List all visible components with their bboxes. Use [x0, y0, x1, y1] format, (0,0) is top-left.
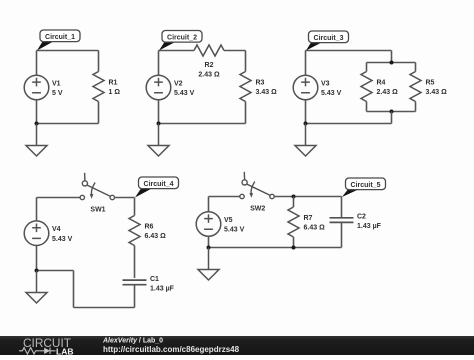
svg-text:SW2: SW2 [250, 205, 265, 212]
resistor R7 6.43 Ω (vertical) [288, 207, 299, 237]
svg-text:2.43 Ω: 2.43 Ω [198, 72, 220, 79]
node R7 top junction (junction) [292, 195, 296, 199]
svg-text:AlexVerity / Lab_0: AlexVerity / Lab_0 [102, 337, 163, 344]
voltage source V3 5.43 V [293, 75, 318, 100]
wire R7 top lead [293, 197, 295, 208]
svg-text:5.43 V: 5.43 V [52, 236, 73, 243]
ground GND circuit 1 [26, 124, 47, 157]
resistor R2 2.43 Ω (horizontal) [194, 45, 224, 56]
voltage source V5 5.43 V [196, 212, 221, 237]
svg-text:1.43 µF: 1.43 µF [357, 223, 382, 230]
svg-text:R7: R7 [304, 215, 313, 222]
resistor R3 3.43 Ω (vertical) [240, 72, 251, 102]
wire bottom path horizontal 1 [37, 270, 74, 272]
node label callout Circuit_5 [342, 178, 386, 197]
wire R4 top lead [366, 63, 368, 72]
ground GND circuit 5 [198, 248, 219, 281]
wire C1 bottom lead [134, 285, 136, 308]
wire V2 top lead [158, 51, 160, 76]
resistor R1 1 Ω (vertical) [93, 72, 104, 102]
wire R7 bottom lead [293, 237, 295, 248]
svg-text:Circuit_2: Circuit_2 [167, 34, 197, 41]
wire R4 bottom lead [366, 102, 368, 112]
wire C4 top-right: SW1 to R6 [115, 197, 135, 199]
wire C3 top: V3+ right [306, 50, 392, 52]
svg-text:LAB: LAB [56, 347, 73, 355]
wire C2 bottom lead [341, 222, 343, 247]
ground GND circuit 3 [295, 124, 316, 157]
wire bottom path vertical [73, 271, 75, 308]
wire C3 bottom wire [306, 123, 392, 125]
svg-text:5.43 V: 5.43 V [174, 90, 195, 97]
wire C5 bottom wire [209, 247, 342, 249]
wire R6 to C1 wire [134, 246, 136, 279]
svg-text:Circuit_3: Circuit_3 [314, 35, 344, 42]
wire V4 bottom lead [36, 246, 38, 271]
svg-text:3.43 Ω: 3.43 Ω [256, 89, 278, 96]
wire V5 bottom lead [208, 236, 210, 247]
wire drop to parallel top bar [391, 51, 393, 63]
wire R1 top lead [98, 51, 100, 72]
wire V1 bottom lead [36, 100, 38, 124]
ground GND circuit 2 [148, 124, 169, 157]
svg-text:R4: R4 [377, 80, 386, 87]
svg-text:Circuit_4: Circuit_4 [144, 181, 174, 188]
node top bar junction (junction) [390, 61, 394, 65]
wire C5 top-right: SW2 to R7/C2 [275, 196, 342, 198]
wire C2 top-right: R2 to R3 [224, 50, 246, 52]
svg-text:6.43 Ω: 6.43 Ω [304, 225, 326, 232]
svg-text:5.43 V: 5.43 V [321, 90, 342, 97]
node label callout Circuit_2 [159, 31, 202, 51]
node label callout Circuit_4 [135, 177, 179, 198]
wire C1 top: V1+ to R1 top [37, 50, 99, 52]
wire R1 bottom lead [98, 102, 100, 124]
wire V1 top lead [36, 51, 38, 76]
wire C5 top-left: V5+ to SW2 [209, 196, 240, 198]
svg-text:V4: V4 [52, 226, 61, 233]
svg-text:6.43 Ω: 6.43 Ω [145, 233, 167, 240]
wire C1 bottom: R1 to V1- [37, 123, 99, 125]
wire V3 top lead [305, 51, 307, 76]
node V1- / ground junction (junction) [35, 122, 39, 126]
wire C2 bottom: R3 to V2- [159, 123, 246, 125]
voltage source V1 5 V [24, 75, 49, 100]
svg-text:C2: C2 [357, 214, 366, 221]
wire V4 top lead [36, 198, 38, 221]
resistor R5 3.43 Ω (vertical) [410, 72, 421, 102]
wire V3 bottom lead [305, 100, 307, 124]
ground GND circuit 4 [26, 271, 47, 304]
switch SW2 (SPST toggle, open) [240, 172, 274, 199]
node V4- / ground junction (junction) [35, 269, 39, 273]
svg-text:3.43 Ω: 3.43 Ω [426, 89, 448, 96]
wire R3 bottom lead [245, 102, 247, 124]
node V5- / ground junction (junction) [207, 246, 211, 250]
switch SW1 (SPST toggle, open) [80, 173, 114, 200]
wire R5 bottom lead [415, 102, 417, 112]
node R7 bottom junction (junction) [292, 246, 296, 250]
voltage source V2 5.43 V [146, 75, 171, 100]
svg-text:R3: R3 [256, 80, 265, 87]
svg-text:R2: R2 [205, 62, 214, 69]
wire V2 bottom lead [158, 100, 160, 124]
svg-text:V5: V5 [224, 217, 233, 224]
wire bottom path horizontal 2 [74, 307, 135, 309]
svg-text:5.43 V: 5.43 V [224, 227, 245, 234]
wire C2 top lead [341, 197, 343, 218]
wire parallel bottom bar [367, 111, 416, 113]
node label callout Circuit_3 [306, 31, 349, 51]
svg-text:V3: V3 [321, 81, 330, 88]
voltage source V4 5.43 V [24, 221, 49, 246]
svg-text:C1: C1 [150, 276, 159, 283]
svg-text:Circuit_5: Circuit_5 [351, 182, 381, 189]
svg-text:R1: R1 [109, 80, 118, 87]
wire parallel top bar [367, 62, 416, 64]
svg-text:1 Ω: 1 Ω [109, 89, 121, 96]
svg-text:R6: R6 [145, 224, 154, 231]
capacitor C2 1.43 µF [330, 218, 354, 223]
svg-text:Circuit_1: Circuit_1 [45, 34, 75, 41]
wire C4 top-left: V4+ to SW1 [37, 197, 81, 199]
svg-text:SW1: SW1 [90, 206, 105, 213]
wire R3 top lead [245, 51, 247, 72]
svg-text:V1: V1 [52, 81, 61, 88]
resistor R4 2.43 Ω (vertical) [361, 72, 372, 102]
svg-text:V2: V2 [174, 81, 183, 88]
node bottom bar junction (junction) [390, 110, 394, 114]
node label callout Circuit_1 [37, 30, 80, 51]
svg-text:http://circuitlab.com/c86egepd: http://circuitlab.com/c86egepdrzs48 [103, 345, 240, 354]
CircuitLab logo [19, 336, 73, 356]
svg-text:5 V: 5 V [52, 90, 63, 97]
svg-text:1.43 µF: 1.43 µF [150, 285, 175, 292]
wire C2 top-left: V2+ to R2 [159, 50, 195, 52]
resistor R6 6.43 Ω (vertical) [129, 216, 140, 246]
svg-text:R5: R5 [426, 80, 435, 87]
wire R6 top lead [134, 198, 136, 216]
wire drop to bottom wire [391, 112, 393, 124]
svg-text:2.43 Ω: 2.43 Ω [377, 89, 399, 96]
node V2- / ground junction (junction) [157, 122, 161, 126]
wire V5 top lead [208, 197, 210, 212]
node V3- / ground junction (junction) [304, 122, 308, 126]
capacitor C1 1.43 µF [123, 280, 147, 285]
wire R5 top lead [415, 63, 417, 72]
